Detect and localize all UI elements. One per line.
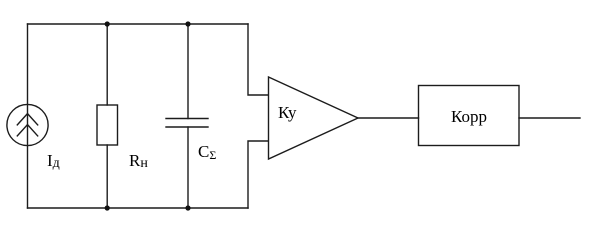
wire top input drop (248, 24, 268, 95)
wire Rн branch upper (106, 24, 108, 105)
current source Iд circle (7, 104, 48, 145)
junction node bottom-Rн (105, 205, 110, 210)
svg-text:CΣ: CΣ (198, 142, 216, 162)
svg-text:Rн: Rн (129, 151, 148, 171)
wire top bus (28, 23, 249, 25)
wire left branch vertical (27, 24, 29, 208)
current source chevron upper (17, 114, 37, 125)
wire final output (519, 117, 580, 119)
wire Rн branch lower (106, 145, 108, 208)
wire CΣ branch lower (187, 127, 189, 208)
wire bottom input rise (248, 141, 268, 208)
wire CΣ branch upper (187, 24, 189, 119)
capacitor CΣ top plate (166, 118, 208, 120)
svg-text:Корр: Корр (451, 107, 487, 126)
resistor Rн body (97, 105, 118, 145)
wire amp output (358, 117, 419, 119)
current source chevron lower (17, 125, 37, 136)
op-amp Ку triangle (269, 77, 359, 159)
junction node top-CΣ (185, 21, 190, 26)
block Корр (419, 86, 520, 146)
junction node top-Rн (105, 21, 110, 26)
svg-text:Iд: Iд (47, 151, 60, 171)
svg-text:Ку: Ку (278, 103, 297, 122)
capacitor CΣ bottom plate (166, 126, 208, 128)
junction node bottom-CΣ (185, 205, 190, 210)
wire bottom bus (28, 207, 249, 209)
